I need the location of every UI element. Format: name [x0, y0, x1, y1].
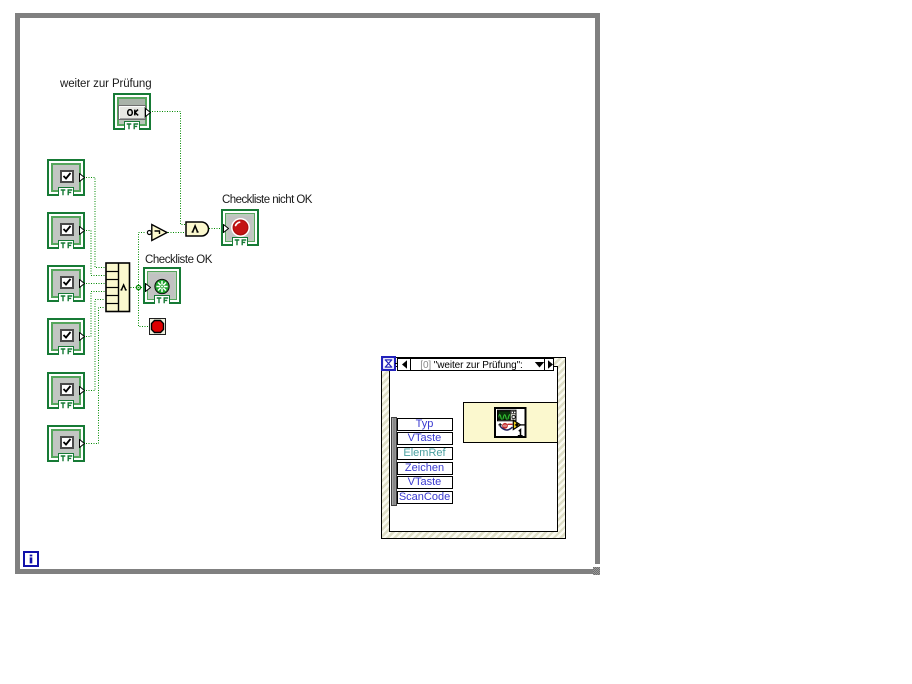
- wire junction up to NOT gate: [139, 233, 147, 286]
- green wheel terminal (Checkliste OK): [143, 267, 181, 304]
- event structure timeout terminal: [381, 356, 396, 371]
- wire junction right to Checkliste OK terminal: [141, 287, 146, 289]
- event data row VTaste: [397, 432, 453, 445]
- selector dropdown arrow: [534, 361, 545, 369]
- event data row ElemRef: [397, 447, 453, 460]
- selector left arrow: [398, 359, 411, 370]
- probe blue arc: [500, 426, 512, 430]
- stop button: [149, 318, 166, 335]
- wire checkbox4 to node: [86, 292, 105, 337]
- label Checkliste nicht OK: [222, 194, 312, 206]
- event structure inner area: [389, 366, 558, 532]
- selector right arrow: [544, 359, 555, 370]
- NOT gate: [146, 223, 170, 242]
- yellow arrow: [513, 420, 520, 429]
- scope buttons: [511, 411, 513, 413]
- wire NOT gate to AND gate: [168, 232, 185, 234]
- digit 1: [518, 430, 523, 436]
- checkbox terminal 1: [47, 159, 85, 196]
- window frame bottom border: [15, 569, 593, 574]
- checkbox terminal 2: [47, 212, 85, 249]
- window frame corner grip: [593, 567, 600, 575]
- checkbox terminal 4: [47, 318, 85, 355]
- label weiter zur Pruefung: [60, 78, 152, 90]
- compound AND node: [105, 262, 131, 313]
- wire checkbox1 to node: [86, 178, 105, 268]
- wire checkbox3 to node: [86, 283, 105, 285]
- checkbox terminal 6: [47, 425, 85, 462]
- scope screen: [498, 411, 510, 420]
- AND gate: [185, 221, 211, 237]
- window frame right border: [595, 13, 600, 564]
- label Checkliste OK: [145, 254, 212, 266]
- checkbox terminal 5: [47, 372, 85, 409]
- wire junction dot: [136, 285, 140, 289]
- wire OK button to AND gate: [152, 112, 185, 225]
- wire junction down to stop button: [139, 290, 150, 327]
- yellow subdiagram panel: [463, 402, 559, 443]
- probe red phi and line: [503, 424, 507, 428]
- OK button terminal (weiter zur Pruefung): [113, 93, 151, 130]
- scope body: [498, 410, 517, 421]
- event data row ScanCode: [397, 491, 453, 504]
- window frame left border: [15, 13, 20, 574]
- event data node spine: [391, 417, 397, 506]
- checkbox terminal 3: [47, 265, 85, 302]
- case selector frame: [397, 358, 554, 371]
- wire checkbox6 to node: [86, 308, 105, 444]
- wire node output to junction: [128, 287, 136, 289]
- info icon bottom-left: [23, 551, 39, 567]
- event structure hatched border: [381, 357, 566, 539]
- probe plus: [498, 423, 501, 426]
- red LED terminal (Checkliste nicht OK): [221, 209, 259, 246]
- window frame top border: [15, 13, 600, 18]
- selector text: [411, 360, 532, 371]
- wire checkbox5 to node: [86, 300, 105, 391]
- event data row Zeichen: [397, 462, 453, 475]
- wire checkbox2 to node: [86, 231, 105, 276]
- event data row Typ: [397, 418, 453, 431]
- connector timeout to selector: [395, 363, 398, 365]
- wire AND gate to red LED terminal: [209, 228, 223, 230]
- subVI icon (scope with probe, case 1): [494, 407, 527, 438]
- event data row VTaste 2: [397, 476, 453, 489]
